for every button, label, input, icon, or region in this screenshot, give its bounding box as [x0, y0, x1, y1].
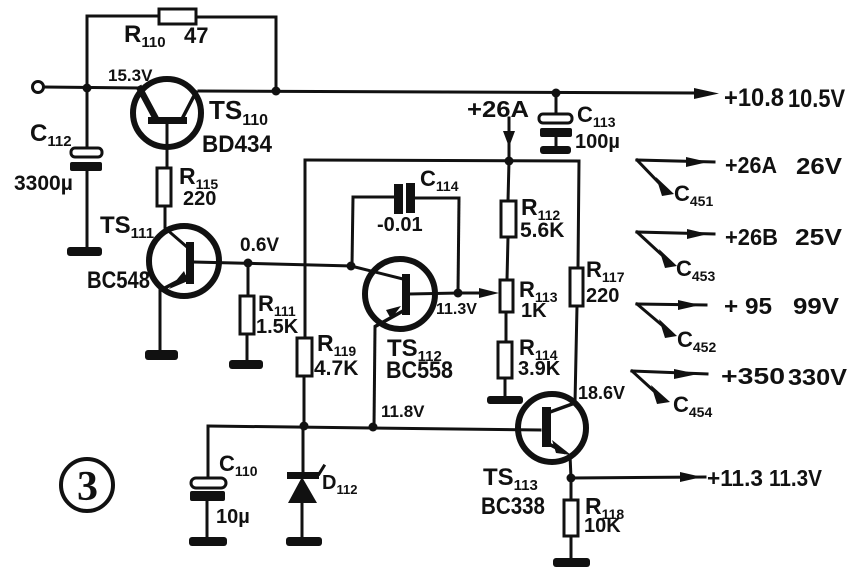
svg-text:11.8V: 11.8V: [381, 402, 425, 421]
transistor TS113: [481, 394, 586, 520]
wire wiper arrow to R113: [458, 288, 499, 298]
svg-text:BD434: BD434: [202, 131, 273, 158]
svg-text:18.6V: 18.6V: [578, 383, 625, 403]
svg-text:10µ: 10µ: [216, 506, 250, 528]
wire top to R110 left: [87, 15, 159, 18]
transistor TS111: [87, 212, 219, 296]
wire bottom rail 11.8V: [208, 426, 540, 430]
input terminal: [33, 82, 44, 93]
connector row +26B 25V: [637, 224, 843, 268]
svg-text:11.3V: 11.3V: [769, 465, 823, 491]
ground under R118: [553, 558, 590, 567]
ground under R114: [487, 396, 523, 404]
svg-text:3: 3: [77, 464, 98, 510]
connector row +26A 26V: [637, 152, 843, 196]
capacitor C113: [539, 93, 620, 153]
svg-text:47: 47: [184, 23, 208, 48]
svg-text:3300µ: 3300µ: [14, 172, 73, 195]
svg-text:99V: 99V: [793, 293, 840, 319]
svg-text:3.9K: 3.9K: [518, 358, 561, 380]
svg-text:1K: 1K: [521, 300, 547, 322]
voltage label 11.8V: [381, 402, 425, 421]
svg-text:4.7K: 4.7K: [314, 357, 358, 380]
capacitor C112: [14, 120, 102, 248]
connector row +95 99V: [637, 293, 840, 338]
svg-text:1.5K: 1.5K: [256, 316, 299, 338]
svg-text:5.6K: 5.6K: [520, 219, 564, 242]
wire R115 to TS111 collector: [165, 206, 187, 247]
svg-text:220: 220: [183, 188, 216, 210]
connector label C453: [676, 256, 715, 284]
connector label C451: [674, 181, 713, 209]
svg-text:11.3V: 11.3V: [436, 301, 477, 318]
svg-text:220: 220: [586, 285, 619, 307]
ground under R111: [229, 360, 263, 369]
node junction at C112 branch: [83, 84, 92, 93]
svg-text:+26A: +26A: [467, 96, 529, 122]
svg-text:+11.3: +11.3: [707, 465, 763, 491]
svg-text:-0.01: -0.01: [377, 214, 423, 236]
node junction at R111 top: [244, 259, 253, 268]
svg-text:+350: +350: [721, 363, 785, 389]
resistor R117: [570, 161, 625, 403]
capacitor C110: [190, 426, 258, 538]
transistor TS112: [351, 259, 458, 384]
transistor TS110: [133, 79, 273, 168]
wire +26A feed arrow down: [503, 118, 515, 161]
wire +11.3 output with arrow: [571, 465, 823, 491]
svg-text:+26A: +26A: [725, 152, 777, 178]
svg-text:0.6V: 0.6V: [240, 235, 279, 256]
resistor R114: [498, 335, 561, 397]
node junction TS112 base / C114 right: [454, 289, 463, 298]
svg-text:BC338: BC338: [481, 493, 545, 520]
resistor R112: [501, 161, 564, 280]
node junction TS112 collector / C114: [347, 262, 356, 271]
svg-text:BC558: BC558: [386, 357, 453, 384]
svg-text:26V: 26V: [796, 153, 843, 179]
svg-text:BC548: BC548: [87, 267, 150, 294]
node junction TS112 emitter: [369, 423, 378, 432]
wire TS111 emitter down: [159, 288, 162, 350]
voltage label 0.6V: [240, 235, 279, 256]
wire main rail right with output arrow: [199, 88, 719, 99]
svg-text:+ 95: + 95: [724, 293, 772, 319]
node junction at C113 branch: [552, 89, 561, 98]
svg-text:+10.8: +10.8: [724, 84, 784, 112]
svg-text:15.3V: 15.3V: [108, 66, 153, 85]
wire TS113 emitter to node: [570, 455, 571, 478]
svg-text:+26B: +26B: [725, 224, 778, 250]
page marker circled 3: [61, 459, 113, 511]
node junction +26A: [505, 157, 514, 166]
wire TS112 emitter down: [374, 327, 375, 427]
resistor R119: [297, 330, 358, 426]
ground under D112: [286, 537, 322, 546]
node junction emitter/R118: [567, 474, 576, 483]
wire left vertical to C112: [86, 16, 89, 148]
voltage label 11.3V: [436, 301, 477, 318]
ground under TS111: [145, 350, 178, 360]
resistor R110: [124, 9, 208, 51]
label +10.8 output: [724, 84, 845, 113]
ground under C112: [67, 247, 102, 256]
ground under C113: [540, 146, 571, 154]
node junction R119/D112: [300, 422, 309, 431]
wire R110 right to rail: [196, 17, 276, 91]
resistor R118: [564, 478, 624, 558]
resistor R111: [240, 263, 299, 360]
resistor R115: [157, 163, 218, 210]
svg-text:25V: 25V: [795, 224, 843, 250]
wire 0.6V base line: [194, 262, 351, 266]
zener diode D112: [287, 426, 357, 538]
connector row +350 330V: [632, 363, 848, 404]
svg-text:10.5V: 10.5V: [788, 85, 845, 113]
svg-text:100µ: 100µ: [575, 131, 620, 153]
capacitor C114: [352, 166, 459, 293]
wire main rail left: [44, 87, 140, 88]
node junction at R110 right: [272, 87, 281, 96]
wire +26 mid rail: [305, 160, 579, 161]
voltage label 18.6V: [578, 383, 625, 403]
ground under C110: [189, 537, 227, 546]
connector label C454: [673, 392, 712, 420]
wire R119 vertical: [304, 160, 307, 338]
voltage label 15.3V: [108, 66, 153, 85]
trimmer R113: [500, 277, 558, 342]
svg-text:330V: 330V: [788, 364, 848, 390]
label +26A feed: [467, 96, 529, 122]
connector label C452: [677, 327, 716, 355]
svg-text:10K: 10K: [584, 515, 621, 537]
